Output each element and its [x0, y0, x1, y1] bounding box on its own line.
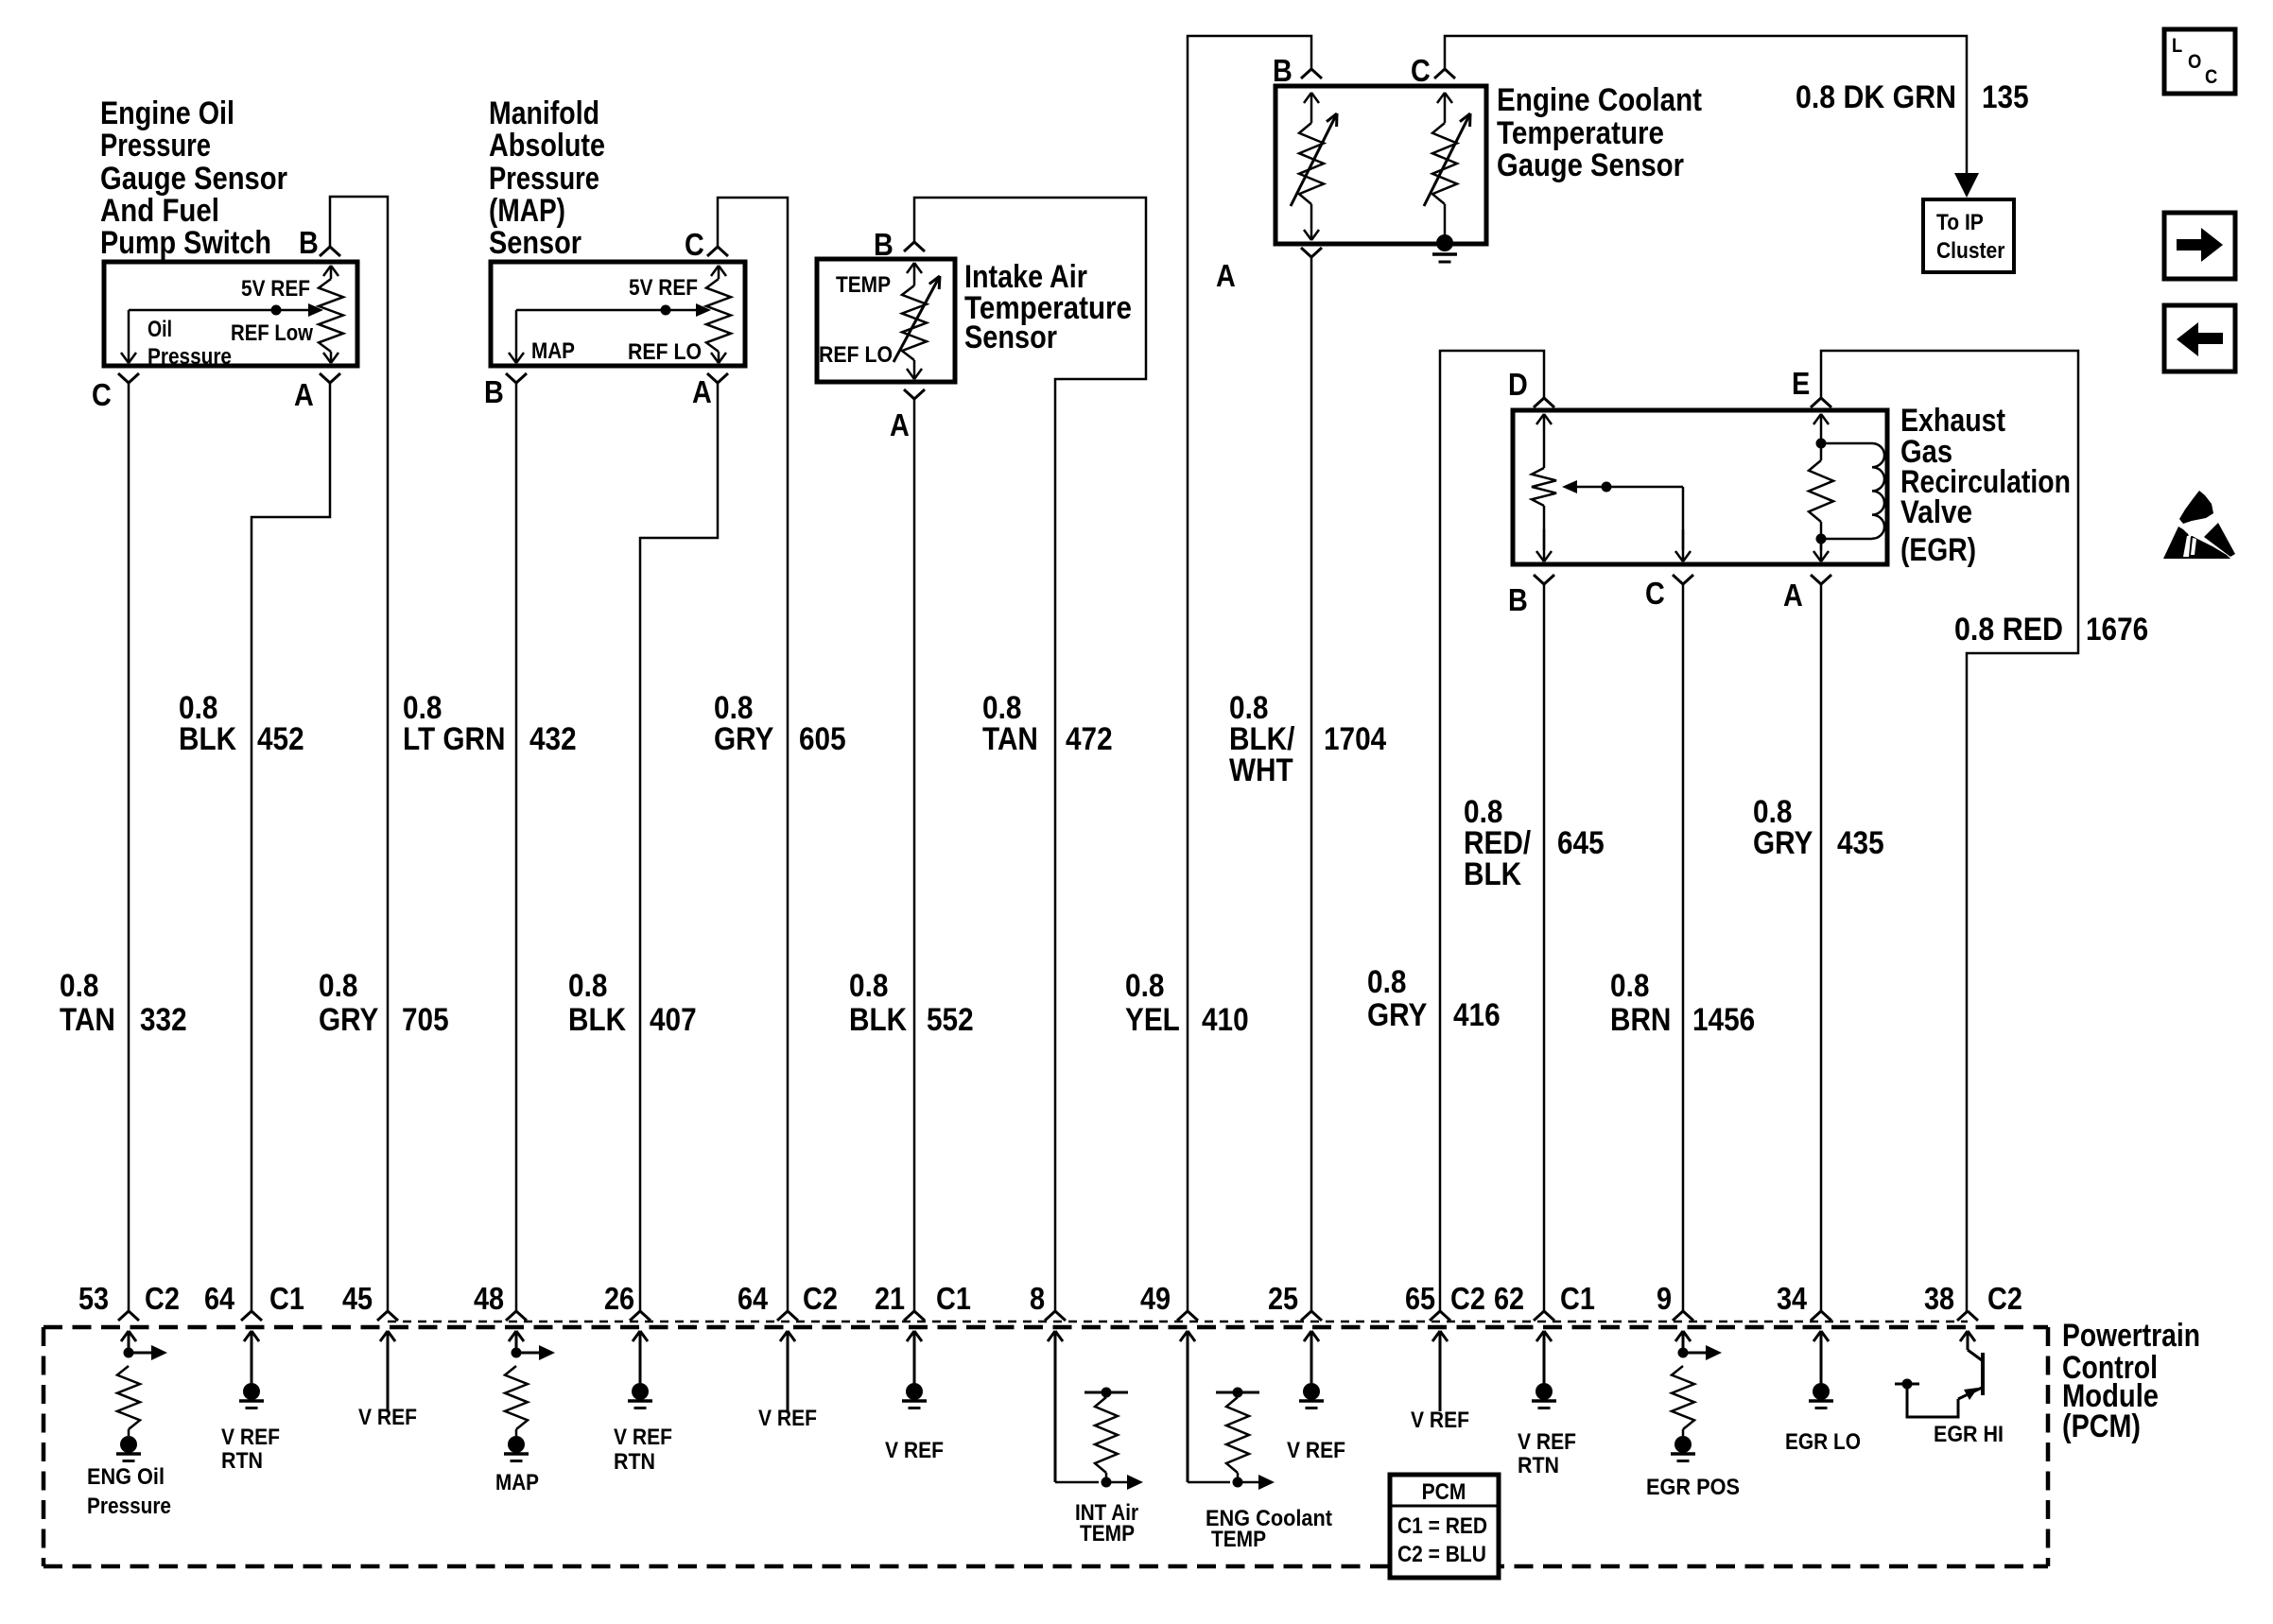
wire: MAP pin B to PCM pin 48 (0.8 LT GRN 432) — [515, 383, 518, 1311]
svg-text:0.8 DK GRN: 0.8 DK GRN — [1796, 79, 1956, 115]
svg-text:TEMP: TEMP — [1080, 1521, 1135, 1546]
svg-text:EGR POS: EGR POS — [1646, 1475, 1740, 1500]
svg-text:C2: C2 — [1450, 1281, 1485, 1316]
backward arrow reference box — [2164, 305, 2235, 371]
wire: EGR pin D to PCM pin 65 C2 (0.8 GRY 416) — [1440, 351, 1544, 1311]
svg-text:V REF: V REF — [885, 1438, 944, 1463]
svg-text:E: E — [1792, 366, 1810, 401]
svg-text:TEMP: TEMP — [1211, 1527, 1266, 1552]
svg-text:Pressure: Pressure — [87, 1494, 171, 1519]
connector chevron at PCM pin x=1780 — [1673, 1311, 1683, 1321]
svg-text:5V REF: 5V REF — [241, 276, 310, 302]
svg-text:0.8: 0.8 — [60, 968, 98, 1004]
PCM internal: V REF RTN ground (pin 62 C1) — [1543, 1331, 1546, 1383]
PCM internal: V REF RTN ground (pin 26) — [639, 1331, 642, 1383]
connector chevron at PCM pin x=2081 — [1957, 1311, 1968, 1321]
svg-text:ENG Oil: ENG Oil — [87, 1464, 165, 1490]
svg-text:REF LO: REF LO — [628, 339, 702, 365]
svg-text:Pump Switch: Pump Switch — [100, 225, 271, 261]
svg-text:1456: 1456 — [1692, 1002, 1755, 1038]
wire: IAT pin A to PCM pin 21 C1 (0.8 BLK 552) — [913, 399, 916, 1311]
svg-text:And Fuel: And Fuel — [100, 193, 219, 229]
svg-text:V REF: V REF — [1287, 1438, 1345, 1463]
PCM internal: V REF ground (pin 25) — [1310, 1331, 1313, 1383]
svg-text:C1: C1 — [1560, 1281, 1595, 1316]
svg-text:B: B — [299, 225, 319, 260]
svg-text:MAP: MAP — [531, 338, 575, 364]
PCM internal: ENG Oil Pressure input (pin 53) — [128, 1331, 130, 1353]
svg-text:B: B — [484, 374, 504, 409]
wiper of MAP potentiometer — [516, 309, 701, 312]
svg-text:V REF: V REF — [221, 1425, 280, 1450]
svg-text:TAN: TAN — [60, 1002, 115, 1038]
svg-text:RTN: RTN — [1518, 1453, 1559, 1478]
svg-text:TEMP: TEMP — [836, 272, 891, 298]
PCM internal: V REF ground (pin 21 C1) — [913, 1331, 916, 1383]
svg-text:45: 45 — [342, 1281, 373, 1316]
LOC reference box (top right) — [2164, 29, 2235, 94]
wire: Coolant pin A to PCM pin 25 (0.8 BLK/WHT 1704) — [1310, 257, 1313, 1311]
svg-text:V REF: V REF — [1518, 1429, 1576, 1455]
svg-text:0.8: 0.8 — [319, 968, 357, 1004]
svg-text:432: 432 — [529, 721, 577, 757]
svg-text:C1: C1 — [269, 1281, 304, 1316]
wire: IAT pin B to PCM pin 8 (0.8 TAN 472) — [914, 198, 1146, 1311]
svg-text:RTN: RTN — [614, 1449, 655, 1475]
svg-text:332: 332 — [140, 1002, 187, 1038]
svg-text:BLK: BLK — [1464, 856, 1521, 892]
connector line (thin dashed) across PCM pins — [388, 1321, 1968, 1323]
svg-text:Pressure: Pressure — [100, 128, 211, 164]
svg-text:BLK: BLK — [568, 1002, 626, 1038]
connector chevron at PCM pin x=410 — [377, 1311, 388, 1321]
svg-text:65: 65 — [1405, 1281, 1435, 1316]
svg-text:135: 135 — [1982, 79, 2029, 115]
svg-text:EGR HI: EGR HI — [1934, 1422, 2004, 1447]
PCM internal: V REF source (pin 64 C2) — [787, 1331, 789, 1411]
wire: MAP pin C to PCM pin 64 C2 (0.8 GRY 605) — [718, 198, 788, 1311]
svg-text:C1: C1 — [936, 1281, 971, 1316]
svg-text:34: 34 — [1777, 1281, 1808, 1316]
svg-text:(PCM): (PCM) — [2062, 1408, 2141, 1444]
PCM connector legend box (C1=RED C2=BLU) — [1390, 1475, 1499, 1578]
svg-text:410: 410 — [1202, 1002, 1249, 1038]
connector chevron at PCM pin x=1926 — [1811, 1311, 1821, 1321]
svg-text:Pressure: Pressure — [489, 161, 599, 197]
svg-text:C2: C2 — [1987, 1281, 2022, 1316]
svg-text:TAN: TAN — [982, 721, 1038, 757]
component box: Intake Air Temperature Sensor — [817, 259, 955, 382]
wiper of EGR potentiometer — [1577, 486, 1683, 489]
svg-text:9: 9 — [1657, 1281, 1672, 1316]
wire: MAP pin A to PCM pin 26 (0.8 BLK 407) — [640, 383, 718, 1311]
svg-text:GRY: GRY — [1753, 825, 1813, 861]
svg-text:A: A — [890, 407, 910, 442]
svg-text:C: C — [685, 227, 704, 262]
svg-text:L: L — [2172, 35, 2182, 57]
svg-text:Powertrain: Powertrain — [2062, 1318, 2200, 1354]
ESD sensitive device symbol — [2179, 491, 2213, 524]
svg-text:552: 552 — [927, 1002, 974, 1038]
svg-text:0.8 RED: 0.8 RED — [1954, 612, 2063, 648]
svg-text:49: 49 — [1140, 1281, 1171, 1316]
svg-text:25: 25 — [1268, 1281, 1298, 1316]
svg-text:(MAP): (MAP) — [489, 193, 565, 229]
svg-text:A: A — [1216, 258, 1236, 293]
svg-text:705: 705 — [402, 1002, 449, 1038]
svg-text:5V REF: 5V REF — [629, 275, 698, 301]
svg-text:B: B — [874, 227, 894, 262]
svg-text:Gauge Sensor: Gauge Sensor — [100, 161, 287, 197]
svg-text:B: B — [1508, 582, 1528, 617]
svg-text:0.8: 0.8 — [1610, 968, 1649, 1004]
connector chevron at PCM pin x=677 — [630, 1311, 640, 1321]
coil of EGR solenoid — [1821, 442, 1872, 445]
PCM internal: EGR HI driver transistor (pin 38) — [1967, 1331, 1969, 1350]
svg-text:Absolute: Absolute — [489, 128, 605, 164]
svg-text:Sensor: Sensor — [964, 320, 1057, 355]
svg-text:64: 64 — [737, 1281, 769, 1316]
component box: Engine Oil Pressure Gauge Sensor And Fuel Pump Switch — [104, 262, 357, 366]
svg-text:Valve: Valve — [1900, 494, 1972, 530]
solenoid resistor inside EGR valve — [1820, 414, 1823, 443]
svg-text:452: 452 — [257, 721, 304, 757]
svg-text:1704: 1704 — [1324, 721, 1386, 757]
svg-text:C: C — [92, 377, 112, 412]
svg-text:RTN: RTN — [221, 1448, 263, 1474]
connector chevron at PCM pin x=833 — [777, 1311, 788, 1321]
svg-text:645: 645 — [1557, 825, 1605, 861]
svg-text:A: A — [294, 377, 314, 412]
svg-text:Oil: Oil — [147, 317, 172, 342]
svg-text:BLK: BLK — [179, 721, 236, 757]
potentiometer track inside EGR valve — [1543, 414, 1546, 468]
PCM internal: INT Air TEMP pull-up resistor (pin 8) — [1054, 1331, 1057, 1482]
svg-text:A: A — [1783, 578, 1803, 613]
connector chevron at PCM pin x=1523 — [1430, 1311, 1440, 1321]
svg-text:0.8: 0.8 — [568, 968, 607, 1004]
connector chevron at PCM pin x=1387 — [1301, 1311, 1311, 1321]
thermistor 1 (left) inside Engine Coolant sensor — [1310, 93, 1313, 123]
svg-text:BLK: BLK — [849, 1002, 907, 1038]
svg-text:Pressure: Pressure — [147, 344, 232, 370]
wire: EGR pin C to PCM pin 9 (0.8 BRN 1456) — [1682, 584, 1685, 1311]
svg-text:(EGR): (EGR) — [1900, 532, 1976, 568]
svg-text:EGR LO: EGR LO — [1785, 1429, 1861, 1455]
svg-text:Sensor: Sensor — [489, 225, 581, 261]
wire: Coolant pin C to IP Cluster (0.8 DK GRN 135) — [1445, 36, 1967, 173]
component box: To IP Cluster — [1923, 199, 2014, 272]
wire: Engine Oil pin B to PCM pin 45 (0.8 GRY 705) — [330, 197, 388, 1311]
component box: Exhaust Gas Recirculation Valve (EGR) — [1513, 410, 1887, 564]
svg-text:To IP: To IP — [1936, 210, 1984, 235]
svg-text:O: O — [2188, 51, 2201, 73]
svg-text:Engine Oil: Engine Oil — [100, 95, 234, 131]
svg-text:38: 38 — [1924, 1281, 1954, 1316]
svg-text:Manifold: Manifold — [489, 95, 599, 131]
svg-text:V REF: V REF — [614, 1425, 672, 1450]
PCM internal: ENG Coolant TEMP pull-up resistor (pin 49) — [1187, 1331, 1189, 1482]
svg-text:GRY: GRY — [714, 721, 774, 757]
svg-text:B: B — [1273, 53, 1293, 88]
svg-text:GRY: GRY — [1367, 997, 1428, 1033]
component box: Engine Coolant Temperature Gauge Sensor — [1275, 86, 1486, 244]
svg-text:C1 = RED: C1 = RED — [1397, 1513, 1487, 1539]
wire: EGR pin B to PCM pin 62 C1 (0.8 RED/BLK 645) — [1543, 584, 1546, 1311]
PCM internal: V REF source (pin 65 C2) — [1439, 1331, 1442, 1411]
potentiometer inside Engine Oil sensor (5V REF / REF Low track) — [330, 266, 333, 279]
svg-text:REF Low: REF Low — [231, 320, 313, 346]
svg-text:Temperature: Temperature — [1497, 115, 1664, 151]
connector chevron at PCM pin x=136 — [118, 1311, 129, 1321]
svg-text:64: 64 — [204, 1281, 235, 1316]
wire: EGR pin E to PCM pin 38 C2 (0.8 RED 1676) — [1821, 351, 2078, 1311]
wiper of Engine Oil potentiometer — [129, 309, 313, 312]
svg-text:BRN: BRN — [1610, 1002, 1671, 1038]
svg-text:605: 605 — [799, 721, 846, 757]
svg-text:Engine Coolant: Engine Coolant — [1497, 82, 1702, 118]
svg-text:LT GRN: LT GRN — [403, 721, 506, 757]
svg-text:C2 = BLU: C2 = BLU — [1397, 1542, 1486, 1567]
PCM internal: V REF RTN ground (pin 64 C1) — [251, 1331, 253, 1383]
svg-text:0.8: 0.8 — [1125, 968, 1164, 1004]
svg-text:0.8: 0.8 — [1367, 964, 1406, 1000]
svg-text:1676: 1676 — [2086, 612, 2148, 648]
svg-text:MAP: MAP — [495, 1470, 539, 1495]
wire: Engine Oil pin A to PCM pin 64 C1 (0.8 BLK 452) — [252, 383, 330, 1311]
wire: Engine Oil pin C to PCM pin 53 (0.8 TAN 332) — [128, 383, 130, 1311]
svg-text:YEL: YEL — [1125, 1002, 1180, 1038]
svg-text:62: 62 — [1494, 1281, 1524, 1316]
svg-text:Gauge Sensor: Gauge Sensor — [1497, 147, 1684, 183]
PCM internal: MAP input (pin 48) — [515, 1331, 518, 1353]
svg-text:GRY: GRY — [319, 1002, 379, 1038]
svg-text:416: 416 — [1453, 997, 1501, 1033]
svg-text:48: 48 — [474, 1281, 504, 1316]
connector chevron at PCM pin x=1256 — [1177, 1311, 1188, 1321]
svg-text:435: 435 — [1837, 825, 1884, 861]
svg-text:REF LO: REF LO — [819, 342, 893, 368]
svg-text:WHT: WHT — [1229, 752, 1293, 788]
PCM internal: EGR POS input (pin 9) — [1682, 1331, 1685, 1353]
svg-text:472: 472 — [1066, 721, 1113, 757]
svg-text:C: C — [1411, 53, 1431, 88]
wire: EGR pin A to PCM pin 34 (0.8 GRY 435) — [1820, 584, 1823, 1311]
thermistor 2 (right) inside Engine Coolant sensor — [1444, 93, 1447, 123]
svg-text:A: A — [692, 374, 712, 409]
svg-text:V REF: V REF — [358, 1405, 417, 1430]
connector chevron at PCM pin x=1116 — [1045, 1311, 1055, 1321]
ground inside Engine Coolant sensor — [1436, 234, 1453, 251]
svg-text:C2: C2 — [145, 1281, 180, 1316]
Powertrain Control Module dashed border — [43, 1325, 2048, 1330]
forward arrow reference box — [2164, 213, 2235, 279]
svg-text:C: C — [1645, 576, 1665, 611]
svg-text:21: 21 — [875, 1281, 905, 1316]
svg-text:26: 26 — [604, 1281, 634, 1316]
svg-text:V REF: V REF — [1411, 1408, 1469, 1433]
svg-text:8: 8 — [1030, 1281, 1045, 1316]
svg-text:PCM: PCM — [1422, 1479, 1466, 1505]
svg-text:C2: C2 — [803, 1281, 838, 1316]
svg-text:C: C — [2205, 66, 2217, 88]
connector chevron at PCM pin x=546 — [506, 1311, 516, 1321]
svg-text:407: 407 — [650, 1002, 697, 1038]
wire: Coolant pin B to PCM pin 49 (0.8 YEL 410) — [1188, 36, 1311, 1311]
svg-text:D: D — [1508, 367, 1528, 402]
connector chevron at PCM pin x=266 — [241, 1311, 252, 1321]
svg-text:Cluster: Cluster — [1936, 238, 2004, 264]
svg-text:V REF: V REF — [758, 1406, 817, 1431]
potentiometer inside MAP sensor (5V REF / REF LO track) — [718, 266, 720, 279]
PCM internal: EGR LO ground (pin 34) — [1820, 1331, 1823, 1383]
PCM internal: V REF source (pin 45) — [387, 1331, 390, 1411]
svg-text:0.8: 0.8 — [849, 968, 888, 1004]
connector chevron at PCM pin x=967 — [904, 1311, 914, 1321]
svg-text:53: 53 — [78, 1281, 109, 1316]
component box: Manifold Absolute Pressure (MAP) Sensor — [491, 262, 745, 366]
thermistor inside Intake Air Temperature Sensor — [913, 263, 916, 285]
connector chevron at PCM pin x=1633 — [1534, 1311, 1544, 1321]
